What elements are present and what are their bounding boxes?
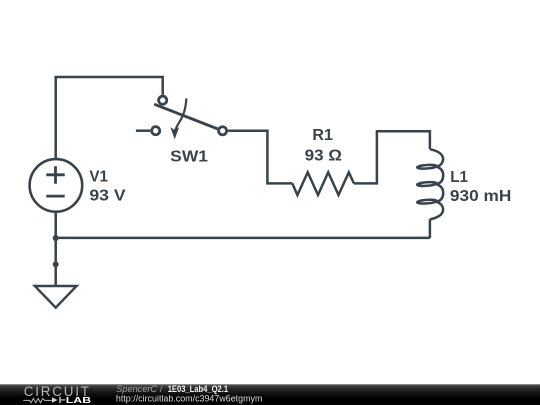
svg-text:LAB: LAB xyxy=(66,395,91,405)
svg-text:http://circuitlab.com/c3947w6e: http://circuitlab.com/c3947w6etgmym xyxy=(116,394,263,405)
svg-text:V1: V1 xyxy=(89,169,108,186)
svg-text:930 mH: 930 mH xyxy=(450,188,511,205)
svg-text:SW1: SW1 xyxy=(170,149,208,166)
svg-text:93 V: 93 V xyxy=(89,188,126,205)
svg-text:R1: R1 xyxy=(312,127,333,144)
svg-text:L1: L1 xyxy=(450,169,468,186)
svg-text:93 Ω: 93 Ω xyxy=(305,147,343,164)
